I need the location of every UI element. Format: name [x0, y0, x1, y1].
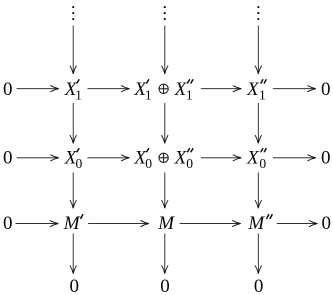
svg-text:0: 0	[259, 156, 266, 171]
svg-text:0: 0	[321, 79, 331, 100]
row1 arrow 0 to X'1	[17, 86, 60, 92]
row3 arrow 0 to M'	[16, 221, 59, 227]
row3 arrow M to M''	[180, 221, 241, 227]
vertical arrow col2 into row1	[162, 26, 168, 75]
svg-text:0: 0	[321, 213, 331, 234]
svg-text:0: 0	[3, 79, 13, 100]
svg-text:M: M	[63, 213, 81, 234]
row1 arrow X''1 to 0	[273, 86, 316, 92]
vertical arrow col3 row2 to row3	[255, 173, 261, 209]
vertical arrow col3 row3 to bottom 0	[255, 233, 261, 274]
svg-text:1: 1	[145, 87, 152, 102]
svg-text:0: 0	[160, 276, 170, 295]
svg-text:0: 0	[145, 156, 152, 171]
svg-text:M: M	[157, 213, 175, 234]
row2 arrow X'0 to middle	[87, 155, 130, 161]
svg-text:0: 0	[186, 156, 193, 171]
row2 label X'0 oplus X''0	[133, 148, 193, 172]
column 2 vertical dots	[164, 6, 166, 20]
svg-text:1: 1	[186, 87, 193, 102]
svg-text:1: 1	[75, 87, 82, 102]
svg-text:0: 0	[3, 213, 13, 234]
svg-text:0: 0	[76, 156, 83, 171]
vertical arrow col1 row1 to row2	[70, 103, 76, 144]
row2 arrow middle to X''0	[201, 155, 242, 161]
row1 label X''1	[246, 79, 266, 103]
vertical arrow col1 row3 to bottom 0	[70, 233, 76, 274]
vertical arrow col1 into row1	[70, 26, 76, 75]
row1 arrow X'1 to middle	[87, 86, 130, 92]
row3 arrow M'' to 0	[277, 221, 318, 227]
svg-text:X: X	[246, 148, 260, 169]
svg-text:0: 0	[3, 148, 13, 169]
column 1 vertical dots	[72, 6, 74, 20]
vertical arrow col3 into row1	[255, 26, 261, 75]
vertical arrow col1 row2 to row3	[70, 173, 76, 209]
row1 label X'1	[64, 79, 82, 103]
row1 label X'1 oplus X''1	[133, 79, 192, 103]
svg-text:1: 1	[259, 87, 266, 102]
row2 arrow X''0 to 0	[273, 155, 316, 161]
svg-text:0: 0	[254, 276, 264, 295]
column 3 vertical dots	[257, 6, 259, 20]
vertical arrow col2 row3 to bottom 0	[162, 233, 168, 274]
vertical arrow col2 row1 to row2	[162, 103, 168, 144]
row3 label M''	[247, 213, 272, 234]
svg-text:M: M	[247, 213, 265, 234]
row1 arrow middle to X''1	[201, 86, 242, 92]
row2 label X'0	[64, 148, 83, 172]
row2 arrow 0 to X'0	[17, 155, 60, 161]
svg-text:X: X	[246, 79, 260, 100]
svg-text:0: 0	[321, 148, 331, 169]
row2 label X''0	[246, 148, 266, 172]
row3 label M'	[63, 213, 83, 234]
vertical arrow col2 row2 to row3	[162, 173, 168, 209]
row3 arrow M' to M	[88, 221, 149, 227]
svg-text:0: 0	[69, 276, 79, 295]
vertical arrow col3 row1 to row2	[255, 103, 261, 144]
